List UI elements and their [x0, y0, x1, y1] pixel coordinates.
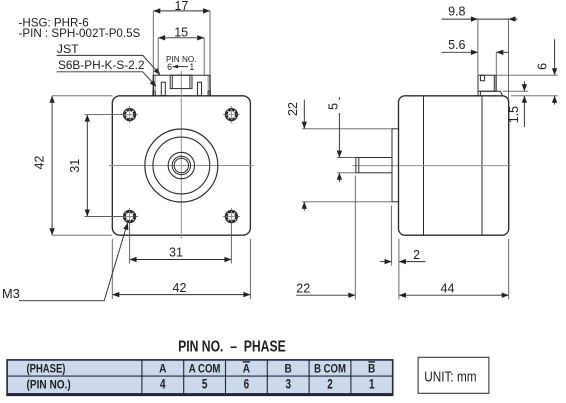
dimension 22 bottom (shaft length side)	[296, 176, 355, 300]
svg-text:1: 1	[369, 377, 375, 392]
svg-text:2: 2	[327, 377, 333, 392]
dimension 44 (body length)	[399, 239, 509, 300]
svg-text:2: 2	[413, 248, 420, 262]
svg-text:B COM: B COM	[314, 362, 346, 375]
table title PIN NO. - PHASE	[178, 337, 286, 355]
connector side view	[478, 75, 503, 96]
svg-text:31: 31	[68, 159, 82, 173]
mounting hole top-left (M3)	[121, 106, 138, 123]
side view motor body	[399, 96, 509, 235]
svg-text:JST: JST	[57, 42, 79, 56]
svg-text:5.6: 5.6	[448, 38, 465, 52]
side view centerline	[352, 165, 511, 167]
label S6B-PH-K-S-2.2 with leader	[57, 58, 157, 87]
svg-text:(PHASE): (PHASE)	[27, 362, 66, 375]
svg-text:1.5: 1.5	[507, 106, 521, 123]
dimension 1.5	[503, 81, 529, 127]
svg-text:31: 31	[169, 246, 183, 260]
side view shaft	[356, 158, 392, 173]
svg-text:22: 22	[286, 102, 300, 116]
dimension 2 (boss thickness)	[380, 206, 425, 266]
front view motor body	[112, 96, 250, 235]
dimension 15	[158, 25, 204, 75]
svg-text:15: 15	[174, 25, 188, 39]
label -HSG -PIN	[19, 16, 141, 40]
svg-text:42: 42	[33, 156, 47, 170]
svg-text:17: 17	[174, 0, 188, 13]
table row labels	[27, 362, 72, 392]
svg-text:4: 4	[160, 377, 166, 392]
pin/phase table	[6, 360, 393, 395]
svg-text:A: A	[159, 363, 166, 376]
mounting hole top-right (M3)	[223, 106, 240, 123]
svg-text:6: 6	[535, 63, 549, 70]
front view pilot and shaft circles	[145, 129, 218, 202]
dimension 17 (connector width)	[153, 0, 210, 75]
dimension 42 vertical (body height)	[33, 96, 113, 235]
mounting hole bottom-right (M3)	[223, 208, 240, 225]
svg-text:1: 1	[189, 62, 194, 72]
svg-text:42: 42	[173, 281, 187, 295]
unit box	[418, 357, 489, 393]
svg-text:6: 6	[167, 62, 172, 72]
dimension 31 bottom (hole pitch horizontal)	[130, 223, 232, 264]
svg-text:M3: M3	[2, 286, 20, 301]
table phase row	[159, 362, 375, 376]
side view pilot boss	[392, 129, 399, 202]
svg-text:5: 5	[326, 103, 340, 110]
front view centerlines	[109, 71, 254, 239]
svg-text:A: A	[243, 363, 250, 376]
svg-text:22: 22	[296, 282, 310, 296]
svg-text:(PIN NO.): (PIN NO.)	[27, 379, 72, 392]
table pin number row	[160, 377, 375, 392]
dimension 42 bottom (body width)	[112, 239, 250, 299]
svg-text:5: 5	[202, 377, 208, 392]
dimension 6 (connector height)	[496, 39, 558, 104]
mounting hole bottom-left (M3)	[121, 208, 138, 225]
dimension 9.8	[442, 5, 518, 99]
svg-text:B: B	[368, 363, 375, 376]
svg-text:A COM: A COM	[189, 362, 221, 375]
label JST with leader	[57, 42, 161, 75]
svg-text:B: B	[285, 363, 292, 376]
svg-text:S6B-PH-K-S-2.2: S6B-PH-K-S-2.2	[58, 58, 145, 72]
dimension 22 (pilot boss diameter)	[286, 100, 392, 211]
label M3 with leader to mounting hole	[2, 223, 128, 301]
svg-text:UNIT: mm: UNIT: mm	[424, 368, 476, 385]
dimension 5.6	[442, 38, 509, 75]
text PIN NO. with 6-1 arrow	[166, 55, 196, 72]
svg-text:9.8: 9.8	[448, 5, 465, 19]
svg-text:PIN NO. – PHASE: PIN NO. – PHASE	[178, 337, 286, 355]
svg-text:6: 6	[244, 377, 250, 392]
dimension 5 (shaft diameter)	[326, 97, 356, 182]
dimension 31 vertical (hole pitch)	[68, 115, 124, 217]
svg-text:3: 3	[285, 377, 291, 392]
connector front view (JST S6B-PH-K-S)	[153, 75, 211, 95]
svg-text:-PIN : SPH-002T-P0.5S: -PIN : SPH-002T-P0.5S	[19, 27, 141, 40]
svg-text:44: 44	[441, 282, 455, 296]
